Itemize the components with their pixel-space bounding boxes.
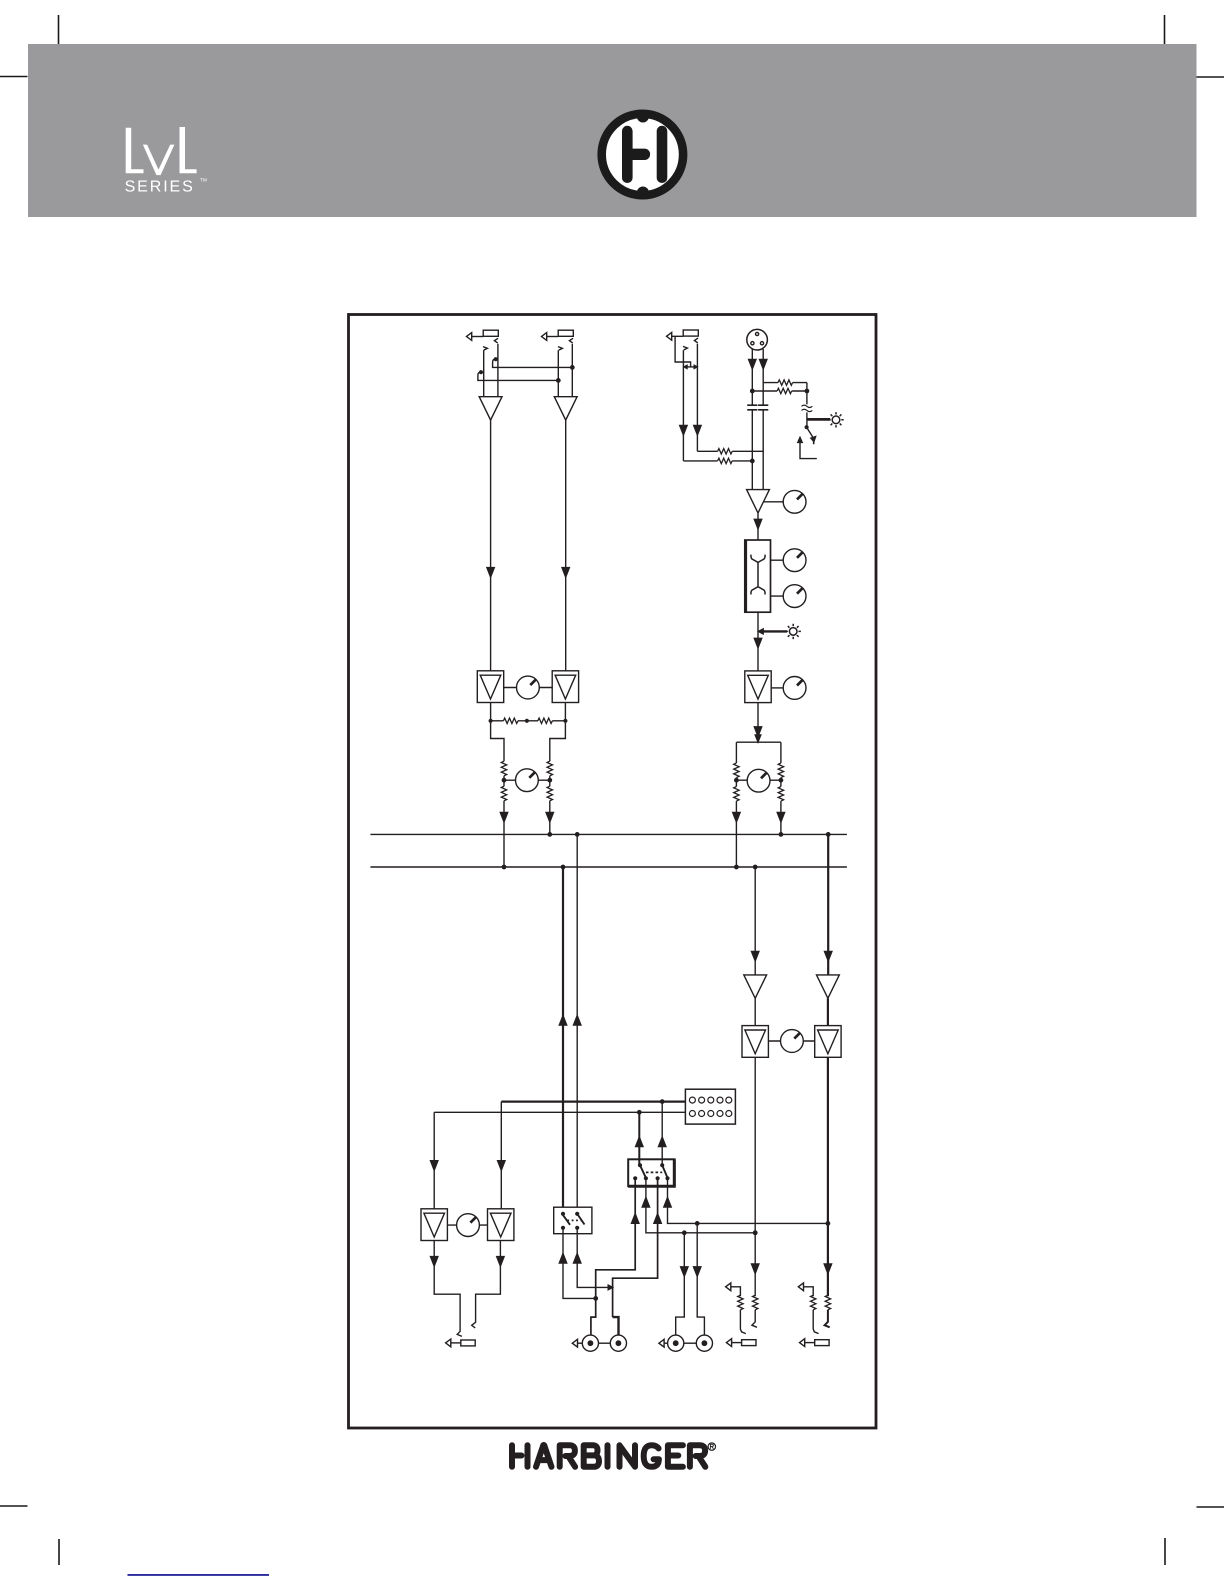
svg-text:TM: TM xyxy=(200,177,207,183)
svg-text:SERIES: SERIES xyxy=(125,178,195,195)
